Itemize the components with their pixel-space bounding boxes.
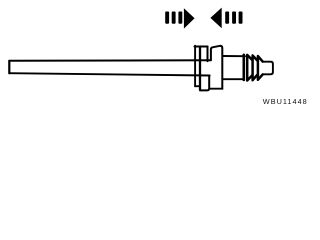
rod top line (9, 59, 209, 62)
collar lower rect: right edge, bottom, corner to shelf (200, 75, 209, 90)
flange front edge V1 (194, 46, 196, 87)
rib tooth 2 (253, 56, 258, 81)
arrow left triangle (pointing right) (184, 8, 195, 28)
flange bottom foot (195, 85, 200, 87)
cylinder top line (223, 55, 245, 57)
arrow right bar 1 (225, 12, 229, 24)
rod bottom line (9, 73, 209, 75)
tip cylinder (263, 62, 273, 75)
arrow right bar 3 (239, 12, 243, 24)
collar upper vertical V2 (207, 47, 209, 62)
arrow left bar 2 (172, 12, 176, 24)
rib tooth 1 (247, 55, 252, 81)
nut cap top profile and right edge V4 (211, 46, 222, 89)
rod left end cap (8, 61, 10, 73)
arrow right triangle (pointing left) (210, 8, 221, 29)
arrow left bar 3 (178, 12, 182, 24)
rib tooth 3 (258, 56, 263, 80)
cylinder bottom line (223, 78, 244, 80)
flange top H1 (195, 46, 208, 48)
arrow left bar 1 (165, 12, 169, 24)
bottom shelf to V4 (209, 88, 222, 90)
flange inner vertical V1b (199, 47, 201, 90)
rib end bar (243, 55, 246, 80)
arrow right bar 2 (232, 12, 236, 24)
svg-text:WBU11448: WBU11448 (263, 97, 308, 106)
